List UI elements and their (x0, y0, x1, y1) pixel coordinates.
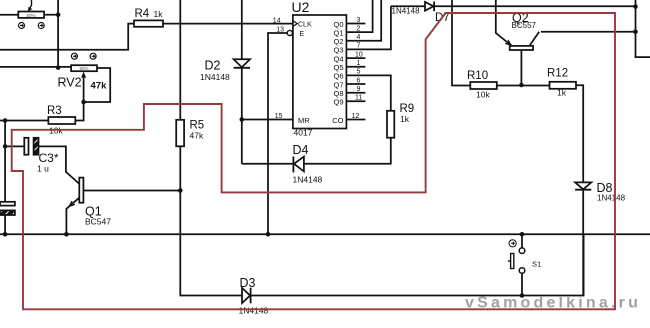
svg-text:47k: 47k (91, 81, 108, 92)
svg-text:Q1: Q1 (333, 28, 343, 37)
svg-text:S1: S1 (532, 260, 541, 269)
svg-text:D2: D2 (205, 59, 221, 73)
svg-text:13: 13 (276, 26, 284, 33)
svg-text:BC557: BC557 (512, 21, 537, 30)
svg-text:1N4148: 1N4148 (392, 7, 421, 16)
svg-text:R4: R4 (135, 8, 150, 20)
svg-text:4017: 4017 (294, 128, 313, 138)
svg-text:Q9: Q9 (333, 98, 343, 107)
svg-text:1k: 1k (557, 88, 567, 98)
svg-text:E: E (300, 31, 305, 38)
svg-text:1N4148: 1N4148 (239, 306, 269, 316)
svg-text:U2: U2 (292, 0, 310, 15)
svg-text:1 u: 1 u (37, 164, 49, 174)
svg-text:11: 11 (355, 95, 362, 102)
svg-text:R3: R3 (47, 105, 62, 117)
svg-text:R10: R10 (467, 70, 488, 82)
svg-text:1: 1 (357, 60, 361, 67)
svg-text:5: 5 (357, 69, 361, 76)
svg-text:1N4148: 1N4148 (597, 194, 626, 203)
svg-text:10k: 10k (476, 90, 490, 100)
svg-text:15: 15 (275, 113, 283, 120)
svg-text:Q3: Q3 (333, 46, 343, 55)
svg-text:47k: 47k (190, 131, 204, 141)
svg-text:CO: CO (332, 116, 343, 125)
svg-text:D3: D3 (240, 276, 256, 290)
svg-text:3: 3 (357, 17, 361, 24)
svg-text:BC547: BC547 (85, 217, 111, 227)
svg-text:Q7: Q7 (333, 80, 343, 89)
svg-text:4: 4 (357, 34, 361, 41)
svg-text:1N4148: 1N4148 (293, 174, 323, 184)
svg-text:1N4148: 1N4148 (200, 72, 230, 82)
svg-text:14: 14 (273, 17, 281, 24)
svg-text:RV2: RV2 (58, 76, 82, 90)
svg-text:50%: 50% (27, 13, 36, 18)
svg-text:10: 10 (355, 51, 363, 58)
svg-text:7: 7 (357, 43, 361, 50)
svg-text:R12: R12 (547, 68, 568, 80)
svg-text:CLK: CLK (298, 21, 312, 28)
svg-text:50%: 50% (80, 66, 89, 71)
svg-text:1k: 1k (154, 9, 164, 19)
svg-text:D4: D4 (293, 143, 309, 157)
svg-text:Q5: Q5 (333, 63, 343, 72)
svg-text:12: 12 (352, 113, 360, 120)
svg-text:MR: MR (298, 116, 310, 125)
svg-text:2: 2 (357, 25, 361, 32)
svg-text:6: 6 (357, 77, 361, 84)
svg-text:1k: 1k (400, 114, 410, 124)
svg-text:9: 9 (357, 86, 361, 93)
